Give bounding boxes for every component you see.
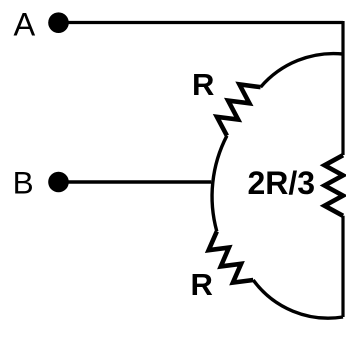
wire arc from top rail junction to resistor R (top) xyxy=(261,54,343,88)
svg-text:R: R xyxy=(192,67,214,102)
resistor 2R/3 zigzag xyxy=(325,155,344,216)
node B terminal dot xyxy=(48,172,69,193)
wire right rail lower segment xyxy=(341,216,344,317)
svg-text:2R/3: 2R/3 xyxy=(248,165,316,201)
resistor R (top) zigzag xyxy=(217,84,261,135)
svg-text:A: A xyxy=(14,7,36,43)
wire from A to top-right corner xyxy=(59,21,344,24)
wire arc through node B junction (between the two R resistors) xyxy=(212,136,227,232)
wire arc from resistor R (bottom) to bottom rail junction xyxy=(253,280,343,318)
node A terminal dot xyxy=(48,12,69,33)
svg-text:R: R xyxy=(191,267,213,302)
svg-text:B: B xyxy=(13,164,34,200)
wire right rail upper segment xyxy=(341,21,344,155)
resistor R (bottom) zigzag xyxy=(209,231,254,282)
wire from B to center junction xyxy=(59,180,212,183)
